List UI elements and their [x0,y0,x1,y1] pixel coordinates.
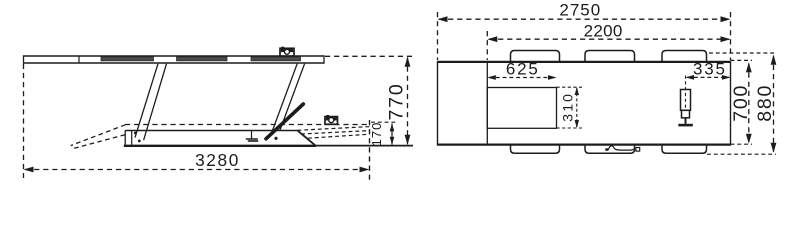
svg-text:310: 310 [559,92,575,122]
svg-text:335: 335 [693,59,727,78]
svg-text:170: 170 [369,122,384,147]
svg-text:2200: 2200 [584,22,623,41]
svg-text:770: 770 [386,83,408,121]
svg-text:2750: 2750 [559,1,601,20]
svg-text:3280: 3280 [195,150,240,170]
svg-text:625: 625 [506,60,540,79]
svg-text:700: 700 [730,84,752,122]
svg-text:880: 880 [754,84,776,122]
